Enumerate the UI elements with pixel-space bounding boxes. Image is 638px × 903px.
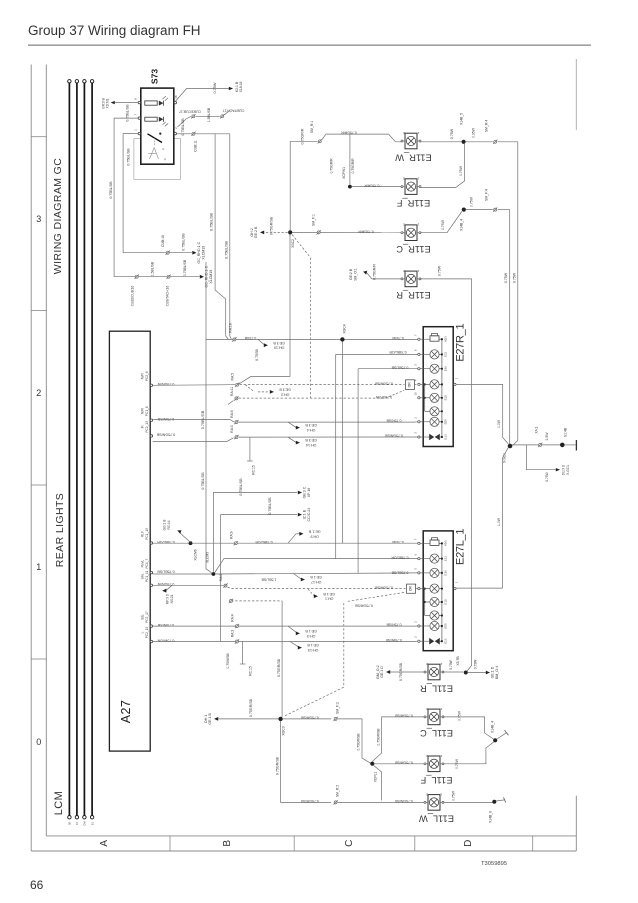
svg-text:RA:2: RA:2	[219, 574, 223, 582]
svg-text:OR: OR	[408, 382, 412, 388]
svg-text:0.75GR/SB: 0.75GR/SB	[374, 586, 392, 590]
svg-text:A27: A27	[119, 700, 133, 723]
svg-text:GE:1 B: GE:1 B	[308, 529, 320, 533]
wire X-SC2 to lamp E11R_C	[292, 214, 402, 235]
svg-text:OH:9: OH:9	[311, 534, 319, 538]
wire A27 SAL row dashed to E27L OR	[153, 574, 406, 605]
svg-text:RA:11: RA:11	[230, 387, 234, 396]
svg-text:0.75BL/SB: 0.75BL/SB	[109, 181, 113, 199]
svg-text:X-GC1: X-GC1	[566, 465, 570, 475]
node X-SC1 ground distribution	[502, 426, 576, 463]
svg-text:BM_O:4: BM_O:4	[495, 666, 499, 679]
wire S73 pin9 to XD:M1	[101, 98, 138, 121]
svg-text:0.75BL/SB: 0.75BL/SB	[126, 148, 130, 166]
wire E27L pin1 ground 1.0W	[456, 447, 509, 588]
svg-text:0.75GN/SB: 0.75GN/SB	[394, 799, 412, 803]
svg-text:2: 2	[403, 223, 405, 227]
lamp E11R_C	[396, 223, 431, 254]
svg-text:9: 9	[134, 98, 138, 100]
svg-text:1: 1	[440, 792, 442, 796]
svg-text:1: 1	[417, 269, 419, 273]
wire E11R_R ground return	[420, 265, 471, 671]
lamp E11L_R	[420, 662, 453, 693]
svg-text:RC:14: RC:14	[167, 520, 171, 529]
svg-text:2: 2	[426, 792, 428, 796]
svg-text:0.75GR/R: 0.75GR/R	[330, 158, 334, 174]
wire E27R pin1 ground	[456, 384, 508, 443]
svg-text:OH:3: OH:3	[307, 634, 315, 638]
svg-text:0.75GR/R: 0.75GR/R	[358, 229, 374, 233]
node X14B_5 ground return of E11R_W/F	[420, 113, 518, 188]
svg-text:SM_R:2: SM_R:2	[336, 785, 340, 797]
svg-text:1: 1	[36, 562, 41, 572]
svg-text:0.75GR/SB: 0.75GR/SB	[275, 756, 279, 775]
svg-text:PC1_6: PC1_6	[145, 406, 149, 416]
svg-text:2: 2	[414, 417, 418, 419]
svg-text:E11R_F: E11R_F	[396, 198, 430, 208]
svg-text:GE:1 B: GE:1 B	[307, 643, 319, 647]
wire S73 pin1 drop	[123, 134, 138, 253]
svg-text:0.75R/SB: 0.75R/SB	[386, 419, 402, 423]
svg-text:1: 1	[417, 131, 419, 135]
svg-text:0.75GR/R: 0.75GR/R	[300, 128, 304, 144]
wire A27 turn row to E27R	[153, 425, 418, 475]
svg-text:DU:3 D: DU:3 D	[561, 464, 565, 475]
svg-text:XLCM19: XLCM19	[209, 270, 213, 284]
wire 0.75BL/SB net V2	[224, 134, 231, 340]
ground ref arrow X-GC1	[526, 445, 569, 482]
svg-text:GC_RHD:1 C: GC_RHD:1 C	[197, 241, 201, 263]
node X-GC4	[340, 324, 346, 341]
chassis ground	[575, 440, 577, 451]
wire A27 stop lamp row to E27R	[153, 410, 418, 432]
svg-text:0.35W: 0.35W	[472, 127, 476, 138]
svg-text:0.75GR/SB: 0.75GR/SB	[300, 715, 318, 719]
column heading WIRING DIAGRAM GC	[52, 158, 64, 274]
svg-text:0.75BL/SB: 0.75BL/SB	[201, 472, 205, 490]
lamp E11L_C	[420, 707, 453, 738]
svg-text:1.5BL/SB: 1.5BL/SB	[261, 577, 276, 581]
node X14B_4 ground return of E11R_C	[420, 189, 510, 233]
wire lamp E11R_R to SM_O:1	[349, 264, 402, 281]
dashed stub to X-GC3 drop	[229, 599, 282, 717]
wire 0.75BL/SB drop to XLCM5	[201, 262, 212, 573]
svg-text:GE:3 B: GE:3 B	[305, 438, 317, 442]
svg-text:CUB/TACH:17: CUB/TACH:17	[222, 109, 244, 113]
wire E27R pin5 row down to E27L	[358, 365, 418, 573]
svg-text:OH:1: OH:1	[204, 715, 208, 723]
svg-text:6: 6	[414, 553, 418, 555]
svg-text:XCPW1: XCPW1	[342, 167, 346, 179]
svg-text:RA:9: RA:9	[229, 531, 233, 539]
svg-text:CUB:11: CUB:11	[194, 140, 198, 152]
svg-text:0.75GR/R: 0.75GR/R	[341, 130, 357, 134]
svg-text:CUB:16: CUB:16	[161, 235, 165, 247]
svg-text:0.75W: 0.75W	[450, 128, 454, 139]
svg-text:0.75BL/SB: 0.75BL/SB	[239, 478, 243, 496]
svg-text:OH:17: OH:17	[311, 580, 321, 584]
svg-text:PC1_7: PC1_7	[145, 559, 149, 569]
svg-text:0.75W: 0.75W	[513, 272, 517, 283]
control unit A27 (LCM)	[109, 331, 175, 751]
svg-text:0.75W: 0.75W	[470, 196, 474, 207]
svg-text:GE:1 B: GE:1 B	[208, 713, 212, 725]
svg-text:XCPL1: XCPL1	[373, 772, 377, 783]
svg-text:0.75BL/SB: 0.75BL/SB	[224, 240, 228, 259]
svg-text:1: 1	[417, 177, 419, 181]
svg-text:RA:5: RA:5	[230, 410, 234, 418]
svg-text:61: 61	[90, 822, 94, 825]
wire XLCM5 to E27L pin6	[215, 556, 418, 573]
svg-text:OH:2: OH:2	[250, 228, 254, 236]
svg-text:0.75GN/SB: 0.75GN/SB	[156, 433, 175, 437]
wire 0.75SB feed row	[206, 323, 341, 361]
svg-text:0.75BL/SB: 0.75BL/SB	[268, 497, 272, 515]
svg-text:0.75W/SB: 0.75W/SB	[385, 638, 401, 642]
svg-text:0.75BL/SB: 0.75BL/SB	[181, 118, 185, 136]
frame border with grid labels	[31, 59, 576, 851]
svg-text:S1:4B: S1:4B	[564, 427, 568, 437]
svg-text:A: A	[99, 840, 110, 847]
svg-text:0.75BL/OR: 0.75BL/OR	[389, 350, 407, 354]
svg-text:E11L_R: E11L_R	[420, 683, 453, 693]
svg-text:0.75BL/SB: 0.75BL/SB	[183, 259, 187, 276]
svg-text:S18:18: S18:18	[239, 82, 243, 93]
svg-text:XSC2: XSC2	[291, 239, 295, 248]
lamp E11R_F	[396, 177, 430, 208]
svg-text:GE:1 B: GE:1 B	[323, 592, 335, 596]
svg-text:LCM: LCM	[53, 791, 65, 815]
svg-text:D: D	[463, 840, 474, 847]
svg-text:E13: E13	[443, 638, 447, 644]
svg-text:0.75W/SB: 0.75W/SB	[226, 653, 230, 669]
svg-text:3: 3	[414, 636, 418, 638]
svg-text:RA:5: RA:5	[231, 373, 235, 381]
svg-text:E10: E10	[443, 395, 447, 401]
svg-text:19: 19	[75, 822, 79, 825]
svg-text:XD:M1: XD:M1	[106, 98, 110, 108]
column heading LCM	[53, 791, 65, 815]
svg-text:SM_F:1: SM_F:1	[312, 214, 316, 226]
svg-text:X14B_6: X14B_6	[489, 811, 493, 823]
svg-text:GG:1 B: GG:1 B	[163, 520, 167, 531]
dashed turn row RA:11 to E27R OR	[228, 387, 404, 405]
svg-text:0.75SB: 0.75SB	[255, 349, 259, 361]
node XCPW1 wire to lamp E11R_F	[330, 134, 402, 188]
svg-text:X14B_4: X14B_4	[491, 721, 495, 733]
wire XLCM5 up to XF:16	[213, 478, 311, 572]
svg-text:38: 38	[68, 822, 72, 825]
svg-text:PC2_17: PC2_17	[145, 611, 149, 623]
svg-text:2: 2	[403, 131, 405, 135]
svg-text:0.75W: 0.75W	[459, 165, 463, 176]
svg-text:CUB/TACH:16: CUB/TACH:16	[166, 286, 170, 307]
svg-text:CUB2/CUB:16: CUB2/CUB:16	[130, 286, 134, 307]
svg-text:0.75GR/R: 0.75GR/R	[351, 158, 355, 174]
svg-text:0.75BL/OR: 0.75BL/OR	[391, 556, 409, 560]
svg-text:GE:1 B: GE:1 B	[305, 629, 317, 633]
dashed drop OR input to X-GC3	[284, 593, 405, 717]
svg-text:GE:2 B: GE:2 B	[349, 268, 353, 280]
svg-text:1.0W: 1.0W	[497, 517, 501, 526]
svg-text:E27R_1: E27R_1	[454, 324, 466, 362]
wire XLCM5 row to E27L pin5	[215, 571, 417, 585]
svg-text:RC:15: RC:15	[252, 465, 256, 475]
svg-text:0.75W: 0.75W	[449, 659, 453, 669]
svg-text:XA:1: XA:1	[535, 426, 539, 433]
svg-text:2: 2	[426, 707, 428, 711]
switch S73 (light switch)	[134, 69, 178, 165]
svg-text:1: 1	[454, 377, 458, 379]
svg-text:0.75GR/SB: 0.75GR/SB	[394, 713, 412, 717]
svg-text:6: 6	[414, 349, 418, 351]
svg-text:CC/C:24: CC/C:24	[307, 508, 311, 522]
svg-text:E36: E36	[443, 366, 447, 372]
svg-text:RA:18: RA:18	[229, 323, 233, 333]
svg-text:0.75GR/SB: 0.75GR/SB	[394, 760, 412, 764]
svg-text:2: 2	[426, 662, 428, 666]
svg-text:0.75GR/SB: 0.75GR/SB	[399, 662, 403, 681]
svg-text:E09: E09	[443, 623, 447, 629]
svg-text:MF:3 D: MF:3 D	[166, 593, 170, 604]
wire 0.75SB to E27R pin7	[345, 336, 418, 340]
svg-text:1.5BL/SB: 1.5BL/SB	[151, 261, 155, 276]
svg-text:RC:15: RC:15	[249, 666, 253, 676]
wire 0.75BL/SB net V1	[210, 134, 229, 340]
svg-text:GE:2 B: GE:2 B	[254, 226, 258, 238]
svg-text:WIRING DIAGRAM GC: WIRING DIAGRAM GC	[52, 158, 64, 274]
wire X-SC2 up to lamp E11R_W via SM_R:1	[290, 121, 402, 230]
svg-text:RA:3: RA:3	[231, 630, 235, 638]
svg-text:0.75W: 0.75W	[452, 790, 456, 801]
svg-text:1: 1	[440, 662, 442, 666]
svg-text:0.75W: 0.75W	[455, 758, 459, 769]
svg-text:5: 5	[414, 568, 418, 570]
svg-text:GE:1 B: GE:1 B	[310, 575, 322, 579]
svg-text:0: 0	[36, 737, 41, 747]
svg-text:DM: DM	[83, 821, 87, 825]
svg-text:0.75W: 0.75W	[473, 659, 477, 669]
svg-text:7: 7	[414, 334, 418, 336]
svg-text:IZ:1 B: IZ:1 B	[303, 509, 307, 519]
svg-text:7: 7	[414, 538, 418, 540]
svg-text:K2:1 B: K2:1 B	[235, 81, 239, 92]
wire X-GC3 to XCPL1 via SM_F:2	[283, 702, 371, 763]
svg-text:0.75W: 0.75W	[438, 265, 442, 276]
wire S73 pin7 drop	[109, 118, 138, 277]
node X14B_4 on E11L_C/F returns	[443, 710, 508, 769]
lamp E11R_R	[396, 269, 431, 300]
svg-text:S73: S73	[149, 69, 159, 84]
svg-text:0.75BL/GR: 0.75BL/GR	[255, 540, 273, 544]
svg-text:GE:3 B: GE:3 B	[305, 423, 317, 427]
LCM bus trunk wires	[68, 80, 95, 826]
svg-text:BM_O:2: BM_O:2	[376, 665, 380, 678]
svg-text:SM_R:4: SM_R:4	[485, 120, 489, 132]
wire S73 pin18 to K2 S18:18	[175, 81, 243, 102]
wire E27R pin6 row down to E27L	[336, 350, 418, 558]
svg-text:GB:3 C: GB:3 C	[303, 486, 307, 498]
wire E11L_R to BM_O:2	[376, 662, 425, 681]
svg-text:3: 3	[414, 432, 418, 434]
svg-text:GE:1 D: GE:1 D	[380, 666, 384, 678]
lamp E11R_W	[395, 131, 432, 162]
OR gate pin E27R	[374, 380, 417, 390]
wire A27 SdL row to E27L	[153, 614, 418, 638]
wire S73 pin2 feed	[177, 118, 230, 152]
wire X-GC3 down to SM_R:2 row	[275, 721, 425, 805]
svg-text:PC1_11: PC1_11	[145, 570, 149, 582]
ground wires 0.75W verticals	[497, 142, 518, 446]
svg-text:0.75W: 0.75W	[213, 82, 217, 93]
svg-text:0.75BL/SB: 0.75BL/SB	[157, 569, 175, 573]
svg-text:E10: E10	[443, 599, 447, 605]
svg-text:PC2_8: PC2_8	[145, 371, 149, 381]
svg-text:0.75W: 0.75W	[504, 272, 508, 283]
svg-text:0.75GR/SB: 0.75GR/SB	[357, 733, 361, 751]
svg-text:0.75GR/R: 0.75GR/R	[372, 264, 376, 280]
svg-text:0.75GR/SB: 0.75GR/SB	[374, 381, 392, 385]
svg-text:XLCM6: XLCM6	[194, 549, 198, 560]
svg-text:E21: E21	[443, 351, 447, 357]
wire A27 L row to E27L	[153, 630, 418, 676]
svg-text:0.75GR/SB: 0.75GR/SB	[277, 658, 281, 677]
svg-text:SM_R:1: SM_R:1	[310, 121, 314, 133]
svg-text:GE:1 D: GE:1 D	[491, 666, 495, 678]
svg-text:18: 18	[174, 95, 178, 99]
svg-text:1: 1	[440, 707, 442, 711]
svg-text:E27L_1: E27L_1	[454, 529, 466, 565]
lamp E11L_W	[419, 792, 454, 823]
svg-text:0.75BL/SB: 0.75BL/SB	[391, 365, 408, 369]
svg-text:X14B_5: X14B_5	[460, 113, 464, 125]
node XLCM5 reverse light	[153, 552, 216, 576]
page title	[28, 23, 591, 45]
bulb unit E27L_1	[414, 529, 467, 651]
svg-text:OH:4: OH:4	[307, 428, 315, 432]
svg-text:HD3: HD3	[443, 336, 447, 342]
link CUB:17	[178, 107, 245, 127]
svg-text:T3059895: T3059895	[481, 861, 507, 867]
svg-text:E09: E09	[443, 419, 447, 425]
lamp E11L_F	[420, 754, 452, 785]
svg-text:E11R_R: E11R_R	[396, 290, 431, 300]
svg-text:XLCM5: XLCM5	[206, 552, 210, 563]
column heading REAR LIGHTS	[54, 493, 66, 567]
svg-text:RA:4: RA:4	[231, 614, 235, 622]
svg-text:2: 2	[403, 177, 405, 181]
svg-text:SM_F:4: SM_F:4	[485, 189, 489, 201]
svg-text:0.75GR/SB: 0.75GR/SB	[249, 698, 253, 717]
OR gate pin E27L	[374, 584, 417, 593]
wire A27 RLF row	[153, 520, 418, 561]
svg-text:0.75GR/SB: 0.75GR/SB	[300, 799, 318, 803]
svg-text:PC1_13: PC1_13	[145, 528, 149, 540]
svg-text:XF:16: XF:16	[307, 488, 311, 498]
svg-text:X5:7B: X5:7B	[456, 656, 460, 666]
svg-text:GR:0 B: GR:0 B	[101, 98, 105, 108]
node X5 on E11L_R return	[443, 656, 499, 679]
svg-text:10: 10	[414, 392, 418, 396]
svg-text:1.0W: 1.0W	[497, 419, 501, 428]
svg-text:E11L_C: E11L_C	[420, 728, 453, 738]
svg-text:OH:13: OH:13	[308, 648, 318, 652]
svg-text:1.5BL/SB: 1.5BL/SB	[207, 107, 211, 122]
svg-text:E11R_C: E11R_C	[396, 244, 431, 254]
svg-text:0.75R/SB: 0.75R/SB	[386, 623, 402, 627]
svg-text:0.75BL/SB: 0.75BL/SB	[126, 104, 130, 122]
svg-text:0.75BL/SB: 0.75BL/SB	[210, 212, 214, 231]
svg-text:B: B	[222, 840, 233, 847]
wire row CUB/TACH:16 to XLCM19	[114, 259, 213, 306]
svg-text:E13: E13	[443, 434, 447, 440]
svg-text:PC2_19: PC2_19	[145, 627, 149, 639]
wire channel outline around S73	[134, 139, 181, 180]
svg-text:0.75GR/SB: 0.75GR/SB	[354, 604, 372, 608]
svg-text:2: 2	[403, 269, 405, 273]
svg-text:2.5W: 2.5W	[545, 432, 549, 441]
svg-text:0.75GR/R: 0.75GR/R	[364, 184, 380, 188]
svg-text:C: C	[344, 840, 355, 847]
svg-text:0.75GR/SB: 0.75GR/SB	[270, 216, 274, 235]
svg-text:0.75GR/SB: 0.75GR/SB	[376, 728, 380, 746]
bulb unit E27R_1	[414, 324, 467, 447]
svg-text:GE:3 B: GE:3 B	[273, 341, 285, 345]
svg-text:2: 2	[426, 754, 428, 758]
node X14B_6 on E11L_W return	[443, 790, 506, 823]
wire XCPL1 to E11L_F	[374, 760, 425, 764]
wire row CUB:16 to XLCM19	[123, 233, 205, 264]
svg-text:0.75W: 0.75W	[458, 710, 462, 721]
dashed wire X-SC2 to E27R OR inputs	[292, 235, 311, 399]
svg-text:OH:19: OH:19	[274, 346, 284, 350]
svg-text:1: 1	[134, 129, 138, 131]
svg-text:E11R_W: E11R_W	[395, 152, 432, 162]
node X-SC2	[250, 216, 295, 248]
svg-text:E36: E36	[443, 570, 447, 576]
svg-text:0.75W: 0.75W	[545, 472, 549, 481]
svg-text:0.75BL/GB: 0.75BL/GB	[182, 233, 186, 251]
svg-text:2: 2	[414, 621, 418, 623]
svg-text:3: 3	[36, 214, 41, 224]
svg-text:E11L_W: E11L_W	[419, 814, 454, 824]
svg-text:OR: OR	[409, 586, 413, 592]
svg-text:SM_O:1: SM_O:1	[353, 268, 357, 281]
svg-text:NS:21: NS:21	[170, 594, 174, 603]
svg-text:0.75SB: 0.75SB	[392, 336, 404, 340]
svg-text:E21: E21	[443, 556, 447, 562]
svg-text:XLCM19: XLCM19	[202, 246, 206, 260]
svg-text:0.75SB: 0.75SB	[244, 336, 256, 340]
svg-text:PC2_13: PC2_13	[145, 421, 149, 433]
svg-text:CUB3/CUB:17: CUB3/CUB:17	[179, 109, 201, 113]
wire A27 IWR row (dashed to E27R OR)	[153, 373, 405, 397]
node XCPL1	[370, 713, 425, 800]
wire drop to CC/C:24	[221, 497, 311, 669]
node X-GC3	[204, 698, 286, 735]
svg-text:REAR LIGHTS: REAR LIGHTS	[54, 493, 66, 567]
svg-text:1: 1	[440, 754, 442, 758]
svg-text:RA:3: RA:3	[230, 425, 234, 433]
svg-text:5: 5	[414, 363, 418, 365]
svg-text:1: 1	[454, 581, 458, 583]
svg-text:Group 37 Wiring diagram FH: Group 37 Wiring diagram FH	[28, 23, 201, 38]
svg-text:0.75GR/W: 0.75GR/W	[375, 395, 392, 399]
svg-text:GE:3 B: GE:3 B	[279, 388, 291, 392]
svg-text:7: 7	[134, 113, 138, 115]
svg-text:2: 2	[36, 388, 41, 398]
svg-text:66: 66	[30, 878, 44, 892]
